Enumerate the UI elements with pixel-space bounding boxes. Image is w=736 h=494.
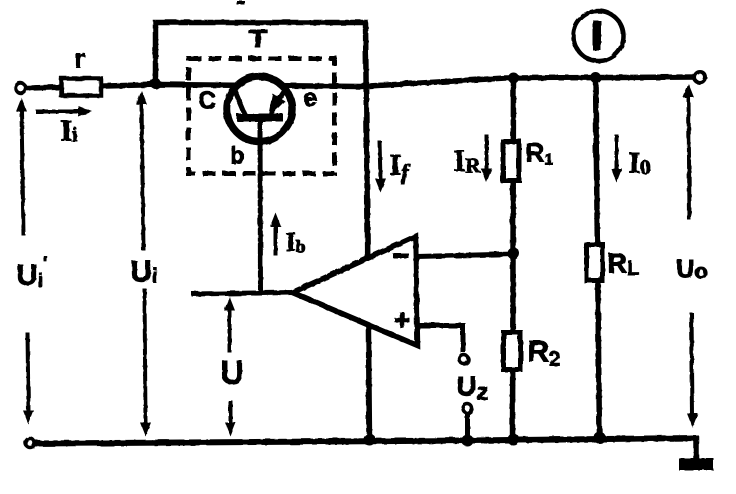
svg-text:b: b [230, 142, 244, 168]
svg-text:Uo: Uo [676, 255, 707, 283]
svg-text:U: U [220, 354, 243, 390]
svg-text:T: T [248, 25, 267, 53]
svg-text:r: r [74, 43, 85, 73]
svg-text:e: e [303, 84, 317, 112]
svg-text:Ui': Ui' [16, 253, 47, 291]
svg-text:C: C [198, 87, 215, 114]
